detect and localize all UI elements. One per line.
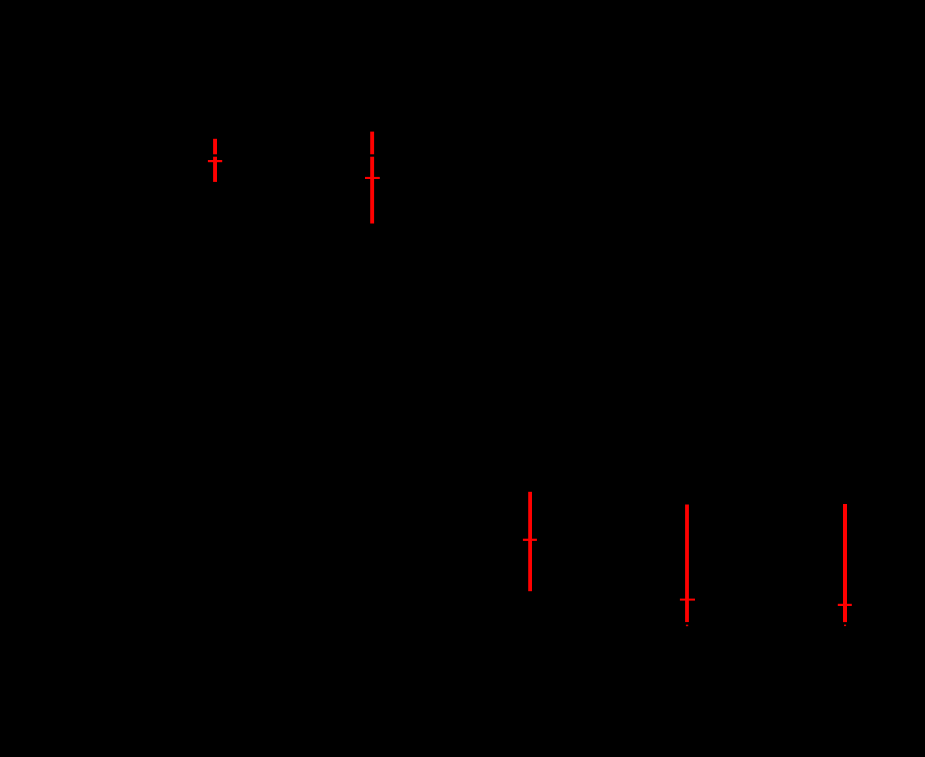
error bar 5 vertical line	[843, 504, 847, 622]
error bar 3 vertical line	[528, 492, 532, 591]
error bar 3 crossbar	[523, 539, 537, 541]
error bar 2 vertical line	[370, 132, 374, 224]
error bar 4 lower nub below black line	[686, 625, 688, 627]
error bar 1 vertical line	[213, 139, 217, 182]
error bar 4 crossbar	[680, 599, 695, 601]
error bar 5 crossbar	[838, 604, 852, 606]
error bar 4 vertical line	[685, 505, 689, 623]
black reference line lower (cuts bars 4 and 5)	[0, 622, 925, 624]
error bar 1 crossbar	[208, 160, 222, 162]
error bar 2 crossbar	[365, 177, 380, 179]
black reference line upper (cuts bars 1 and 2)	[0, 154, 925, 156]
error bar 5 lower nub below black line	[844, 625, 846, 627]
